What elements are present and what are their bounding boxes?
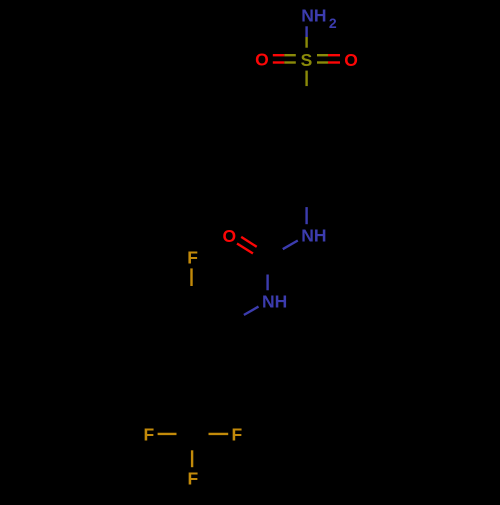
bond C(urea)-N(H) lower <box>266 258 268 290</box>
svg-text:S: S <box>301 50 313 70</box>
double bond S=O right <box>317 55 340 62</box>
svg-text:O: O <box>255 50 269 70</box>
svg-text:NH: NH <box>262 292 287 312</box>
svg-text:F: F <box>231 425 242 445</box>
svg-text:NH: NH <box>301 226 326 246</box>
bond S-C1 (ring1) <box>305 71 307 100</box>
bond C5'(ring2)-C(F3) carbon <box>190 388 193 433</box>
bond N(H2)-S <box>305 26 307 47</box>
bond C(F3)-F bottom <box>191 433 193 467</box>
double bond C(urea)=O <box>237 237 270 261</box>
svg-text:F: F <box>188 469 199 489</box>
double bond S=O left <box>273 55 296 62</box>
svg-text:O: O <box>222 226 236 246</box>
bond N(H)-C(urea) <box>268 241 298 258</box>
svg-text:F: F <box>187 248 198 268</box>
bond N(H)-C1' (ring2) <box>229 307 258 323</box>
bond C(F3)-F left <box>158 433 192 435</box>
benzene ring 1 (carbon, invisible on black) <box>268 100 346 190</box>
bond C(F3)-F right <box>192 433 229 435</box>
bond C4(ring1)-N(H) <box>305 190 307 224</box>
svg-text:O: O <box>344 50 358 70</box>
bond C2'(ring2)-F top <box>190 268 192 301</box>
svg-text:F: F <box>144 425 155 445</box>
benzene ring 2 (carbon, invisible on black) <box>154 301 230 388</box>
